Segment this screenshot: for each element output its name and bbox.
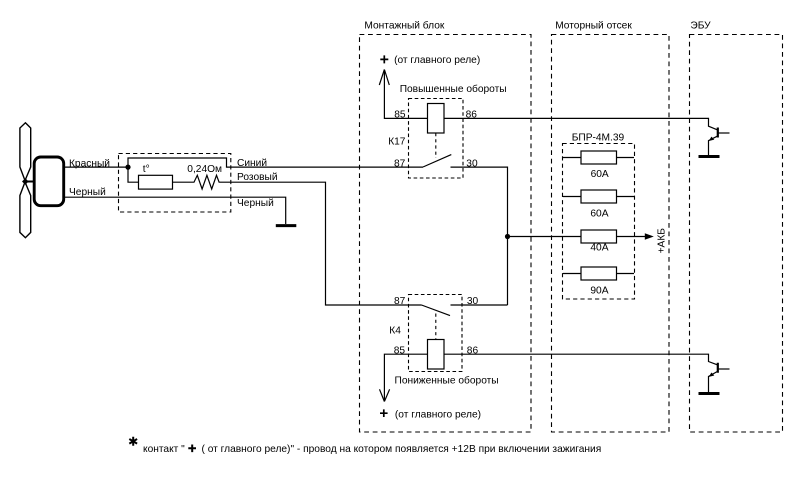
svg-text:30: 30: [466, 158, 478, 169]
svg-text:87: 87: [394, 158, 406, 169]
svg-text:+АКБ: +АКБ: [657, 228, 668, 254]
svg-text:t°: t°: [143, 164, 150, 175]
svg-text:85: 85: [394, 345, 406, 356]
svg-text:К4: К4: [389, 326, 401, 337]
svg-text:60А: 60А: [590, 209, 608, 220]
svg-text:БПР-4М.39: БПР-4М.39: [572, 132, 625, 143]
svg-text:60А: 60А: [591, 169, 609, 180]
svg-text:Розовый: Розовый: [237, 172, 278, 183]
svg-text:Монтажный блок: Монтажный блок: [364, 19, 444, 31]
svg-text:87: 87: [394, 296, 406, 307]
svg-text:40А: 40А: [590, 243, 608, 254]
svg-text:Пониженные обороты: Пониженные обороты: [395, 375, 499, 387]
svg-text:контакт ": контакт ": [143, 444, 185, 455]
svg-text:85: 85: [394, 109, 406, 120]
svg-text:86: 86: [467, 345, 479, 356]
svg-text:(от главного реле): (от главного реле): [394, 55, 480, 66]
svg-text:( от главного реле)" - провод: ( от главного реле)" - провод на котором…: [202, 444, 602, 455]
svg-text:К17: К17: [388, 137, 406, 148]
svg-text:Красный: Красный: [69, 159, 110, 170]
svg-text:Черный: Черный: [69, 187, 106, 198]
svg-text:Моторный отсек: Моторный отсек: [555, 20, 632, 31]
svg-text:Повышенные обороты: Повышенные обороты: [400, 83, 507, 95]
svg-text:30: 30: [467, 296, 479, 307]
svg-text:0,24Ом: 0,24Ом: [187, 164, 222, 175]
svg-text:90А: 90А: [590, 285, 608, 296]
svg-text:(от главного реле): (от главного реле): [395, 409, 481, 420]
svg-text:86: 86: [466, 109, 478, 120]
svg-text:ЭБУ: ЭБУ: [690, 20, 711, 31]
svg-text:Синий: Синий: [237, 158, 267, 169]
svg-text:Черный: Черный: [237, 198, 274, 209]
